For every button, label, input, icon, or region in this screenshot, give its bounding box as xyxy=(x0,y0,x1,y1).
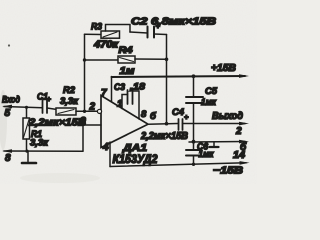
svg-text:1мк: 1мк xyxy=(201,97,217,108)
svg-text:3,3к: 3,3к xyxy=(30,138,49,149)
wire pin 4 riser xyxy=(109,142,111,167)
node common junction xyxy=(192,140,196,144)
node R1 top junction xyxy=(25,106,28,109)
svg-text:2: 2 xyxy=(89,102,96,113)
wire R3 to C2 xyxy=(130,32,148,33)
node R4 left junction xyxy=(83,58,86,61)
wire to R3 xyxy=(85,33,102,35)
svg-text:2: 2 xyxy=(235,126,242,137)
svg-text:,18: ,18 xyxy=(129,82,146,93)
faint smudge left edge xyxy=(0,90,7,150)
resistor R3 xyxy=(101,31,120,38)
svg-text:2,2мк×15В: 2,2мк×15В xyxy=(28,117,87,129)
arrowhead +15V xyxy=(239,74,249,78)
wire to R4 xyxy=(85,59,119,61)
svg-text:8: 8 xyxy=(141,109,147,120)
svg-text:470к: 470к xyxy=(93,40,119,51)
ground symbol on common line xyxy=(213,142,215,147)
wire R2 to pin 2 xyxy=(76,110,98,112)
resistor R4 xyxy=(118,56,135,63)
svg-text:+: + xyxy=(184,113,189,122)
svg-text:1мк: 1мк xyxy=(199,149,215,160)
svg-text:Выход: Выход xyxy=(212,111,243,122)
capacitor C6 xyxy=(193,142,195,149)
svg-text:7: 7 xyxy=(101,88,107,99)
wire output pin 6 to C4 xyxy=(148,123,178,126)
speck top left xyxy=(8,44,10,46)
svg-text:4: 4 xyxy=(102,142,109,153)
wire R1 top lead xyxy=(26,107,28,118)
svg-text:ДА1: ДА1 xyxy=(122,142,147,154)
svg-text:R4: R4 xyxy=(119,45,134,56)
node ground junction xyxy=(25,150,28,153)
svg-text:С4: С4 xyxy=(172,107,185,118)
wire feedback left vertical xyxy=(84,34,86,111)
svg-text:8: 8 xyxy=(5,153,11,164)
arrowhead -15V xyxy=(240,161,250,165)
node C5 top junction xyxy=(192,74,196,78)
capacitor C1 xyxy=(42,100,44,113)
op-amp DA1 triangle body xyxy=(101,96,148,148)
wire -15V rail xyxy=(110,163,246,167)
wire feedback right vertical xyxy=(166,35,168,124)
wire input terminal 5 to C1 xyxy=(4,107,42,108)
svg-text:2,2мк×15В: 2,2мк×15В xyxy=(140,131,188,142)
svg-text:1: 1 xyxy=(117,99,122,110)
node R4 right junction xyxy=(165,58,169,62)
wire common line to terminal 6 xyxy=(189,141,245,144)
wire C5 top lead xyxy=(193,76,195,96)
wire pin 3 xyxy=(83,125,101,151)
svg-text:С3: С3 xyxy=(114,82,126,93)
svg-text:5: 5 xyxy=(5,108,11,119)
node C6 bottom junction xyxy=(192,163,195,166)
wire input common terminal 8 xyxy=(4,150,83,152)
ground symbol input xyxy=(27,151,29,161)
wire C4 to output terminal xyxy=(183,123,246,125)
resistor R1 xyxy=(23,118,30,139)
wire R1 bottom lead xyxy=(26,139,28,151)
wire C5 bottom lead crossing output xyxy=(193,103,195,142)
wire R3 jog over box xyxy=(106,25,131,33)
wire C1 to R2 xyxy=(47,108,57,110)
svg-text:К153УД2: К153УД2 xyxy=(113,154,159,166)
svg-text:−15В: −15В xyxy=(213,166,243,177)
svg-text:С2 6,8мк×15В: С2 6,8мк×15В xyxy=(131,17,216,28)
wire +15V rail xyxy=(112,76,246,77)
resistor R2 xyxy=(56,108,76,115)
svg-text:3: 3 xyxy=(80,115,86,127)
node feedback junction at pin 2 xyxy=(83,110,86,113)
svg-text:R2: R2 xyxy=(63,85,76,96)
svg-text:С5: С5 xyxy=(205,86,218,97)
wire C2 to feedback right vertical xyxy=(154,33,167,36)
capacitor C4 xyxy=(178,119,180,130)
svg-text:+: + xyxy=(47,95,52,104)
svg-text:3,3к: 3,3к xyxy=(60,96,79,107)
wire pin 7 riser xyxy=(111,77,113,102)
faint smudge bottom xyxy=(20,173,100,183)
capacitor C3 xyxy=(122,95,128,109)
svg-text:Вход: Вход xyxy=(2,95,20,106)
arrowhead common xyxy=(239,140,249,144)
svg-text:14: 14 xyxy=(233,150,245,161)
svg-text:+15В: +15В xyxy=(211,62,236,74)
node feedback output junction xyxy=(165,122,169,126)
svg-text:1м: 1м xyxy=(120,66,136,77)
svg-text:R3: R3 xyxy=(91,22,103,33)
capacitor C5 xyxy=(186,96,203,98)
arrowhead output xyxy=(239,122,249,126)
arrowhead terminal 8 xyxy=(2,149,12,153)
inversion circle pin 2 xyxy=(97,109,101,113)
input arrowhead terminal 5 xyxy=(2,105,12,109)
wire R4 to right vertical xyxy=(135,58,167,60)
capacitor C2 xyxy=(147,27,149,38)
